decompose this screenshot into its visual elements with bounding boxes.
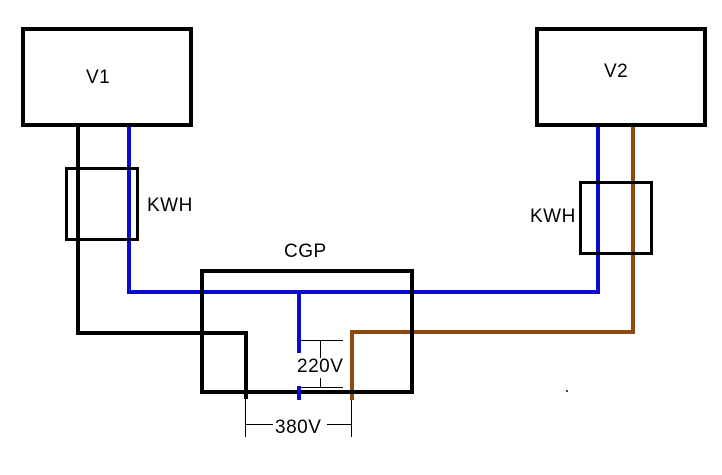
box KWH meter right — [579, 181, 653, 255]
wire: black drop leg inside CGP to bottom edge — [244, 331, 248, 399]
label 380V — [275, 418, 321, 437]
stray dot — [566, 390, 568, 392]
label KWH left — [147, 196, 193, 215]
dimension 380V left horizontal — [245, 424, 273, 425]
dimension 380V left vertical — [245, 399, 246, 437]
wire: brown horizontal run into CGP — [350, 330, 635, 334]
wire: black phase from V1 down through left KWH — [76, 127, 80, 335]
box V1 — [21, 27, 193, 127]
box V2 — [535, 27, 707, 127]
wire: blue center stub in CGP — [297, 290, 301, 353]
wire: blue neutral from V1 down through left KWH — [127, 127, 131, 294]
dimension 220V upper vertical — [320, 340, 321, 358]
dimension 220V top tick — [301, 340, 343, 341]
label V1 — [86, 68, 110, 87]
dimension 380V right vertical — [351, 400, 352, 437]
wire: blue horizontal bus through CGP — [127, 290, 600, 294]
dimension 380V right horizontal — [327, 424, 351, 425]
label V2 — [604, 62, 628, 81]
dimension 220V bottom tick — [301, 387, 343, 388]
label CGP — [284, 242, 327, 261]
wire: black horizontal run into CGP — [76, 331, 248, 335]
label KWH right — [530, 207, 576, 226]
box CGP — [200, 269, 414, 394]
label 220V — [297, 357, 343, 376]
wire: brown drop leg inside CGP to bottom edge — [350, 330, 354, 400]
box KWH meter left — [65, 167, 139, 241]
wire: blue bottom stub crossing CGP bottom edge — [297, 386, 301, 400]
dimension 220V lower vertical — [320, 378, 321, 387]
wire: blue neutral from V2 down through right KWH — [596, 127, 600, 294]
wire: brown phase from V2 down through right KWH — [631, 127, 635, 334]
